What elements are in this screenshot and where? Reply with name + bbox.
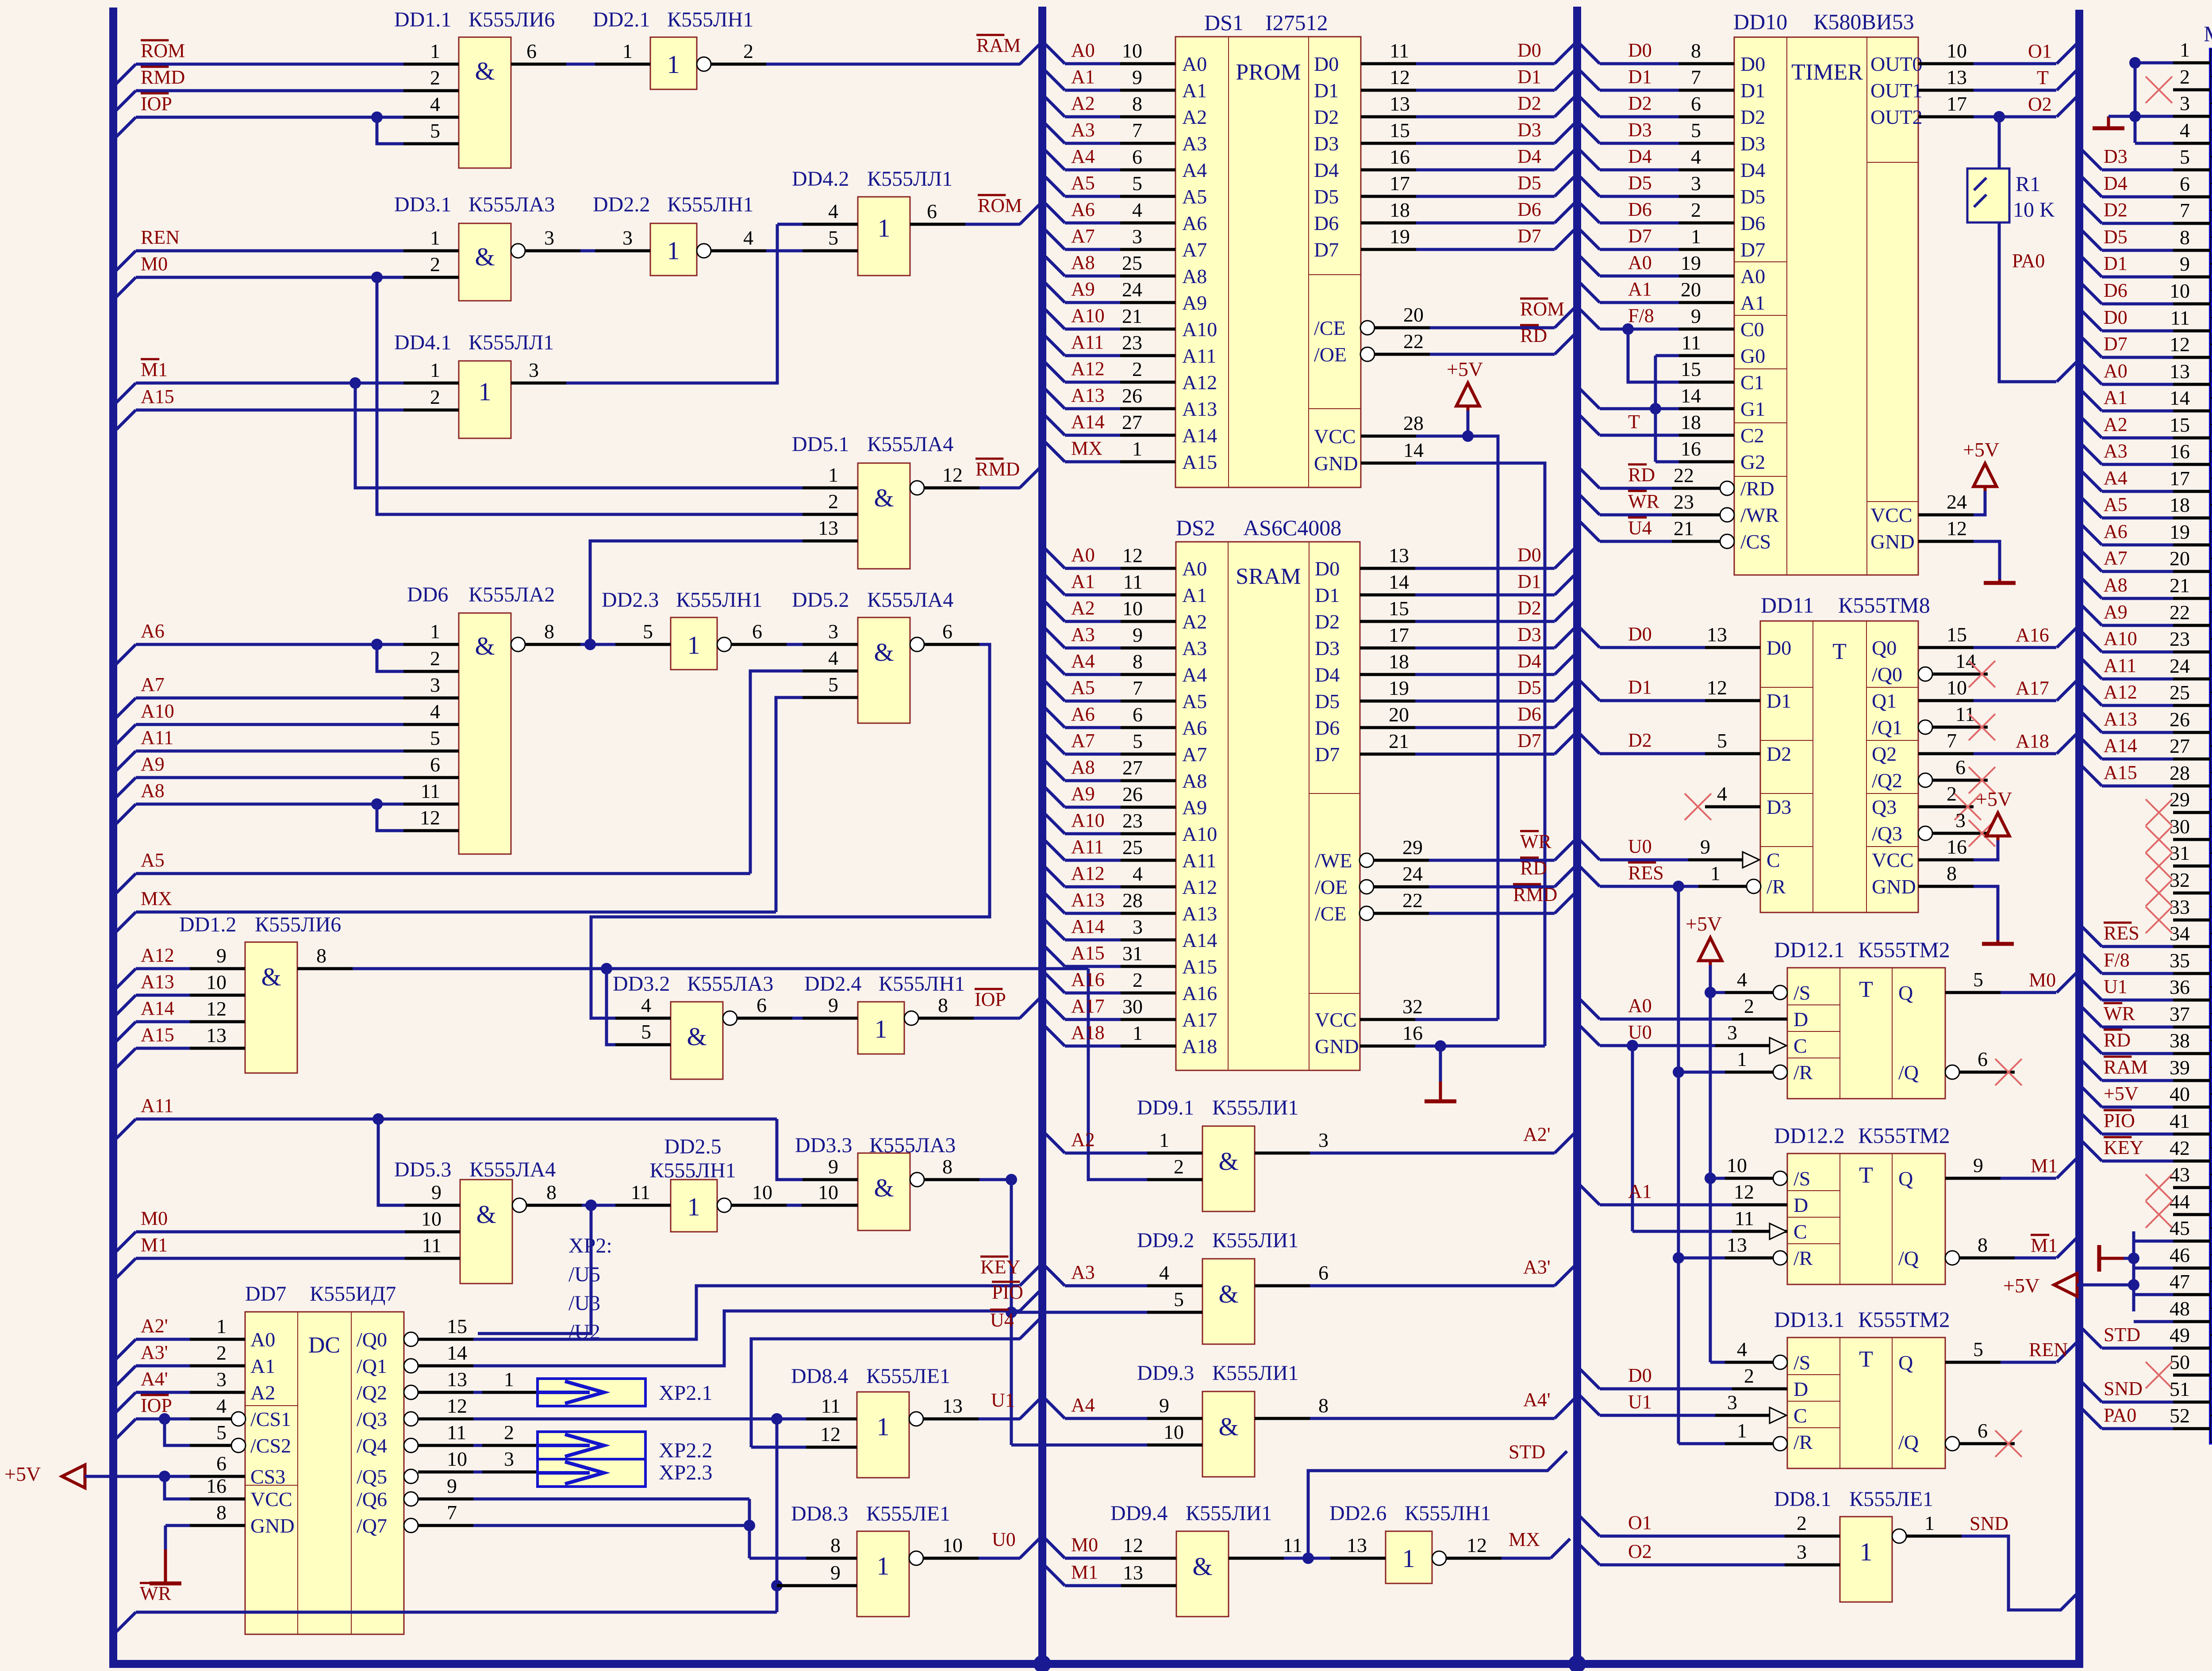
svg-text:A0: A0	[1182, 53, 1207, 75]
svg-text:1: 1	[430, 40, 440, 62]
svg-text:1: 1	[1860, 1537, 1873, 1566]
label DD12.2	[1774, 1123, 1950, 1148]
wire STD net	[1308, 1441, 1567, 1558]
wire XP1 +5V	[2077, 1284, 2134, 1287]
svg-text:A8: A8	[141, 780, 165, 801]
svg-text:/R: /R	[1793, 1247, 1813, 1269]
svg-text:К555ЛА2: К555ЛА2	[469, 583, 555, 606]
svg-text:20: 20	[1389, 703, 1409, 726]
svg-text:RMD: RMD	[975, 458, 1020, 480]
svg-text:8: 8	[1947, 862, 1957, 885]
svg-text:2: 2	[1744, 995, 1754, 1017]
ic DS1 pin name /CE	[1314, 317, 1346, 339]
nand-gate DD3.2 К555ЛА3 body	[671, 1002, 723, 1079]
wire D7 to DD10 pin D7	[1580, 225, 1734, 249]
ic DS1 pin name D0	[1314, 53, 1339, 75]
svg-text:11: 11	[1123, 571, 1143, 593]
svg-text:A3': A3'	[1523, 1256, 1551, 1278]
and-gate DD9.4 symbol	[1192, 1552, 1212, 1581]
wire DD1.2 out pin8	[297, 944, 1088, 969]
svg-text:20: 20	[1403, 303, 1424, 326]
junction RES DD12.1	[1673, 1066, 1684, 1078]
svg-text:A4': A4'	[1523, 1389, 1551, 1410]
ic DD7 pin name /Q2	[357, 1381, 387, 1404]
svg-text:T: T	[1859, 1347, 1873, 1372]
svg-text:D3: D3	[1517, 624, 1541, 645]
ic DS1 pin name A11	[1182, 345, 1217, 367]
ic DS2 pin name A7	[1182, 743, 1207, 766]
svg-text:&: &	[476, 1200, 496, 1229]
wire M0 to DD3.1 pin2	[116, 253, 459, 297]
svg-text:SND: SND	[1970, 1513, 2008, 1534]
svg-text:12: 12	[1122, 544, 1143, 567]
svg-text:D0: D0	[1628, 623, 1652, 645]
ic DD10 pin name /CS	[1740, 530, 1771, 553]
power +5V arrow DD11	[1976, 788, 2012, 840]
nor-gate DD8.4 К555ЛЕ1 body	[857, 1392, 909, 1478]
svg-text:DD2.4: DD2.4	[804, 972, 861, 996]
svg-text:4: 4	[1737, 968, 1747, 991]
wire O1 to DD8.1 pin2	[1580, 1512, 1840, 1536]
svg-text:D1: D1	[1517, 571, 1541, 592]
wire DD5.3 pin9 stub	[405, 1181, 460, 1205]
wire D0 to DD11 pin13	[1580, 623, 1760, 648]
svg-text:A1: A1	[1182, 584, 1207, 606]
svg-text:1: 1	[878, 214, 891, 242]
inversion circle DD11 /Q0	[1918, 667, 1932, 681]
ic DS2 pin name D1	[1315, 584, 1340, 606]
wire A9 to DD6 pin6	[116, 753, 459, 797]
svg-text:3: 3	[504, 1448, 514, 1470]
inversion circle DD8.1	[1892, 1529, 1906, 1543]
svg-text:C: C	[1793, 1035, 1807, 1057]
svg-text:12: 12	[447, 1395, 467, 1417]
svg-text:DD2.3: DD2.3	[602, 588, 659, 612]
wire D5 to DD10 pin D5	[1580, 172, 1734, 196]
wire A3 to DS2 pin A3	[1045, 624, 1176, 648]
svg-text:К555ЛЕ1: К555ЛЕ1	[866, 1502, 950, 1525]
wire A2 to DS2 pin A2	[1045, 597, 1176, 621]
wire M0 to DD9.4 pin12	[1045, 1534, 1176, 1558]
svg-text:1: 1	[504, 1368, 514, 1391]
wire DD5.1 pin13	[590, 517, 858, 644]
power +5V arrow DD7	[4, 1463, 85, 1488]
svg-text:&: &	[874, 483, 894, 512]
wire A6 to DD6 pin1	[116, 620, 459, 664]
ic DD10 pin name OUT1	[1870, 79, 1923, 102]
or-gate DD4.2 К555ЛЛ1 body	[858, 197, 910, 276]
svg-text:/Q2: /Q2	[1872, 769, 1902, 792]
svg-text:20: 20	[1681, 278, 1701, 301]
ic DS1 pin name A6	[1182, 212, 1207, 234]
svg-text:D5: D5	[1628, 172, 1652, 194]
svg-text:D2: D2	[1628, 92, 1652, 114]
svg-text:30: 30	[1122, 995, 1143, 1018]
svg-text:5: 5	[1717, 729, 1727, 752]
clock triangle DD13.1	[1770, 1407, 1786, 1423]
wire A11 to DS2 pin A11	[1045, 836, 1176, 860]
svg-text:&: &	[475, 242, 495, 271]
svg-text:A15: A15	[1182, 451, 1217, 473]
svg-text:14: 14	[1681, 384, 1701, 407]
junction XP1 pin46	[2128, 1253, 2139, 1264]
svg-text:/Q4: /Q4	[357, 1434, 387, 1457]
wire DS1 D4 to bus	[1361, 146, 1574, 170]
svg-text:A2: A2	[1182, 106, 1207, 128]
svg-text:9: 9	[1133, 624, 1143, 646]
inverter DD2.1 symbol	[667, 50, 680, 79]
svg-text:A14: A14	[141, 997, 174, 1019]
svg-text:D0: D0	[1517, 39, 1541, 61]
wire G1 from bus	[1580, 384, 1734, 409]
svg-text:10: 10	[206, 971, 227, 993]
svg-text:XP2.3: XP2.3	[659, 1461, 712, 1484]
svg-text:29: 29	[2170, 788, 2190, 811]
ic DS1 pin name D5	[1314, 185, 1339, 208]
svg-text:24: 24	[2170, 655, 2190, 677]
svg-text:A5: A5	[2104, 494, 2128, 515]
wire DS2 /WE WR	[1374, 831, 1574, 860]
wire DD1.1 pin5 tie	[377, 117, 459, 144]
inversion circle DS1 /CE	[1360, 321, 1375, 335]
svg-text:A15: A15	[1182, 955, 1217, 978]
ic DD7 pin name CS3	[250, 1465, 285, 1488]
wire XP1 pin 8 D5	[2082, 226, 2211, 250]
svg-text:4: 4	[430, 700, 440, 723]
svg-text:PIO: PIO	[992, 1281, 1023, 1303]
svg-text:A17: A17	[1071, 995, 1105, 1017]
wire A14 to DS2 pin A14	[1045, 916, 1176, 940]
svg-text:32: 32	[1402, 995, 1423, 1018]
svg-text:К555ТМ2: К555ТМ2	[1858, 1307, 1950, 1332]
svg-text:14: 14	[1955, 650, 1976, 672]
svg-text:/CS1: /CS1	[250, 1408, 291, 1430]
wire A0 to DS2 pin A0	[1045, 544, 1176, 568]
wire DS1 D5 to bus	[1361, 172, 1574, 196]
wire DD8.4 out pin13 U1	[923, 1389, 1039, 1419]
svg-text:DD5.1: DD5.1	[792, 433, 849, 456]
junction /Q6 /Q7	[744, 1520, 755, 1531]
svg-text:F/8: F/8	[2104, 949, 2130, 971]
svg-text:&: &	[1218, 1147, 1238, 1176]
svg-text:A8: A8	[1182, 265, 1207, 287]
wire XP1 pin 21 A8	[2082, 574, 2211, 598]
svg-text:7: 7	[1132, 119, 1142, 142]
flipflop DD12.2 separators	[1787, 1191, 1840, 1244]
ic DD10 pin name VCC	[1870, 504, 1912, 526]
svg-text:A0: A0	[1628, 995, 1652, 1016]
svg-text:2: 2	[1797, 1512, 1807, 1534]
svg-text:A10: A10	[1182, 318, 1217, 341]
svg-text:14: 14	[1403, 439, 1424, 461]
wire DD10 OUT2 O2	[1918, 92, 2076, 117]
wire A0 to DS1 pin A0	[1045, 39, 1175, 64]
ic DD10 pin name OUT0	[1870, 53, 1923, 75]
svg-text:A13: A13	[1071, 889, 1105, 911]
svg-text:T: T	[1832, 639, 1847, 664]
wire A4 to DD9.3 pin9	[1045, 1394, 1202, 1418]
ic DS2 pin name A12	[1182, 876, 1217, 898]
wire DD1.2net to DD3.2 pin5	[607, 969, 615, 1045]
label DD8.3	[791, 1502, 950, 1525]
svg-text:41: 41	[2170, 1110, 2190, 1132]
wire A1 to DS1 pin A1	[1045, 66, 1175, 90]
svg-text:A4: A4	[1071, 146, 1095, 167]
junction A6 branch	[371, 639, 383, 650]
svg-text:35: 35	[2170, 949, 2190, 972]
svg-text:A12: A12	[141, 944, 174, 966]
svg-text:12: 12	[1947, 517, 1967, 540]
svg-text:/Q3: /Q3	[1872, 822, 1902, 845]
wire A4 to DS1 pin A4	[1045, 146, 1175, 170]
wire XP1 gnd-net vertical	[2134, 63, 2137, 143]
svg-text:D7: D7	[1628, 225, 1652, 247]
svg-text:D4: D4	[2104, 172, 2128, 194]
label DD8.4	[791, 1364, 950, 1388]
ic DS1 pin name A14	[1182, 424, 1217, 447]
svg-text:D4: D4	[1314, 159, 1339, 181]
svg-text:/R: /R	[1767, 875, 1786, 898]
svg-text:DD5.2: DD5.2	[792, 588, 849, 612]
junction pin11 /Q3	[771, 1413, 783, 1425]
svg-text:A0: A0	[1071, 39, 1095, 61]
svg-text:/Q1: /Q1	[1872, 716, 1902, 739]
svg-text:/OE: /OE	[1314, 343, 1347, 366]
svg-text:IOP: IOP	[975, 989, 1006, 1010]
wire G0 tie	[1655, 331, 1734, 356]
ic DD7 pin name A1	[250, 1355, 275, 1377]
bus main vertical 2	[1038, 7, 1046, 1664]
svg-text:8: 8	[1133, 650, 1143, 673]
svg-text:A13: A13	[1182, 902, 1217, 925]
svg-text:U1: U1	[991, 1389, 1015, 1411]
svg-text:8: 8	[1318, 1394, 1329, 1417]
ground symbol DD10	[1984, 579, 2016, 583]
ic DS1 pin name D3	[1314, 132, 1339, 155]
inversion circle DD12.1 /Q	[1945, 1065, 1959, 1079]
svg-text:RD: RD	[1520, 857, 1547, 879]
junction +5V VCC	[159, 1471, 170, 1482]
svg-text:D6: D6	[1740, 212, 1765, 234]
wire XP1 pin 43 nc	[2146, 1163, 2211, 1201]
wire A14 to DD1.2 pin12	[116, 997, 245, 1041]
wire A0 to DD12.1 D pin2	[1580, 995, 1787, 1019]
bus bottom horizontal	[109, 1660, 2083, 1668]
ic DS1 pin name A9	[1182, 291, 1207, 314]
svg-text:3: 3	[1691, 172, 1701, 195]
junction DD3.3net DD9.2	[1006, 1307, 1017, 1318]
label DD2.5	[649, 1135, 736, 1182]
svg-text:STD: STD	[2104, 1324, 2140, 1345]
svg-text:DD2.1: DD2.1	[593, 8, 650, 31]
svg-text:25: 25	[1122, 252, 1142, 274]
svg-text:49: 49	[2170, 1324, 2190, 1346]
svg-text:&: &	[874, 638, 894, 667]
wire R1 bottom PA0	[1999, 222, 2076, 382]
svg-text:30: 30	[2170, 815, 2190, 838]
power +5V arrow XP1	[2003, 1273, 2077, 1297]
svg-text:A12: A12	[1182, 371, 1217, 394]
inversion circle DD5.2	[910, 637, 924, 652]
svg-text:36: 36	[2170, 976, 2190, 998]
svg-text:К555ЛИ6: К555ЛИ6	[255, 913, 341, 936]
svg-text:6: 6	[757, 994, 767, 1016]
label WR bottom	[140, 1583, 172, 1604]
ic DD11 right separators	[1866, 687, 1918, 847]
inversion circle DD12.2 /R	[1773, 1251, 1787, 1265]
svg-text:M1: M1	[141, 359, 168, 380]
junction RES DD12.2	[1673, 1252, 1684, 1264]
svg-text:GND: GND	[1314, 452, 1358, 475]
wire DS2 GND drop	[1439, 1046, 1442, 1081]
inverter DD2.4 symbol	[875, 1015, 887, 1043]
wire G2 tie	[1655, 437, 1734, 462]
svg-text:T: T	[1859, 1163, 1873, 1188]
svg-text:A11: A11	[1182, 849, 1217, 872]
svg-text:DD9.4: DD9.4	[1110, 1502, 1167, 1525]
svg-text:A14: A14	[1071, 916, 1105, 937]
svg-text:SND: SND	[2104, 1378, 2143, 1399]
wire DD5.2 out pin6	[591, 620, 990, 1018]
svg-text:/S: /S	[1793, 1351, 1810, 1374]
inversion circle DD7 /Q 11	[404, 1438, 418, 1453]
inversion circle DD13.1 /Q	[1945, 1437, 1959, 1451]
svg-text:3: 3	[1133, 916, 1143, 938]
wire DD7 GND pin8	[165, 1501, 245, 1549]
inverter DD2.5 К555ЛН1 body	[671, 1180, 717, 1232]
svg-text:D4: D4	[1315, 663, 1340, 686]
svg-text:A14: A14	[1182, 424, 1217, 447]
svg-text:A10: A10	[2104, 628, 2137, 649]
wire A12 to DS2 pin A12	[1045, 862, 1176, 887]
inverter DD2.6 К555ЛН1 body	[1386, 1531, 1432, 1583]
inversion circle DD7 /Q 12	[404, 1412, 418, 1426]
clock triangle DD12.1	[1770, 1038, 1786, 1054]
svg-text:12: 12	[1390, 66, 1410, 88]
wire DD7 /Q6	[418, 1475, 749, 1499]
svg-text:+5V: +5V	[4, 1463, 41, 1485]
wire MX	[116, 888, 776, 931]
ic DS2 symbol SRAM	[1236, 564, 1301, 589]
inversion circle DD10 /RD	[1720, 481, 1734, 495]
wire A5 to DS2 pin A5	[1045, 677, 1176, 701]
svg-text:D1: D1	[1315, 584, 1340, 606]
wire REN to DD3.1 pin1	[116, 226, 459, 270]
wire XP1 pin 6 D4	[2082, 172, 2211, 197]
svg-text:4: 4	[1691, 146, 1701, 168]
wire M1 to DD9.4 pin13	[1045, 1561, 1176, 1586]
wire DD7 /Q1 PIO	[418, 1281, 1039, 1366]
wire DD12.1 Q M0	[1945, 968, 2076, 993]
nand-gate DD3.2 symbol	[687, 1022, 707, 1051]
svg-text:19: 19	[1681, 252, 1701, 274]
wire DD8.3 in pin8	[806, 1534, 857, 1558]
svg-text:11: 11	[631, 1181, 650, 1203]
ic DD7 pin name A0	[250, 1328, 275, 1351]
svg-text:A17: A17	[1182, 1008, 1217, 1031]
ic DD11 left separators	[1760, 687, 1813, 847]
svg-text:OUT1: OUT1	[1870, 79, 1923, 102]
ic DS1 pin name A3	[1182, 132, 1207, 155]
svg-text:A10: A10	[1182, 823, 1217, 845]
svg-text:D7: D7	[1315, 743, 1340, 766]
label DD8.1	[1774, 1487, 1933, 1511]
wire A1 to DD12.2 D pin12	[1580, 1180, 1787, 1205]
svg-text:MX: MX	[1509, 1529, 1540, 1550]
bus main vertical 3	[1573, 7, 1581, 1664]
flipflop DD12.2 internal lines	[1840, 1154, 1892, 1284]
svg-text:22: 22	[1674, 464, 1694, 487]
svg-text:A12: A12	[2104, 681, 2137, 703]
wire DD12.2 Q M1	[1945, 1154, 2076, 1178]
inversion circle DD8.3	[909, 1551, 923, 1565]
svg-text:DD7: DD7	[245, 1282, 286, 1306]
svg-text:D4: D4	[1628, 146, 1652, 167]
inversion circle DD7 /Q 7	[404, 1518, 418, 1533]
svg-text:A11: A11	[1071, 331, 1104, 353]
ic DS2 pin name A8	[1182, 770, 1207, 792]
svg-text:TIMER: TIMER	[1791, 60, 1863, 85]
svg-text:1: 1	[622, 40, 633, 62]
svg-text:4: 4	[743, 226, 753, 249]
wire DD3.3 out pin8	[924, 1155, 1011, 1180]
wire A12 to DS1 pin A12	[1045, 358, 1175, 382]
wire U4 net	[751, 1309, 1039, 1447]
wire DD3.3net to DD9.2 pin5	[1011, 1311, 1147, 1314]
junction XP1 pin3	[2129, 111, 2141, 122]
svg-text:&: &	[1192, 1552, 1212, 1581]
svg-text:XP2.1: XP2.1	[659, 1381, 712, 1405]
svg-text:D2: D2	[1314, 106, 1339, 128]
junction M0 branch	[371, 272, 383, 283]
svg-text:A12: A12	[1071, 358, 1105, 379]
ic DS1 pin name A8	[1182, 265, 1207, 287]
svg-text:К555ЛЕ1: К555ЛЕ1	[866, 1364, 950, 1388]
svg-text:1: 1	[1737, 1419, 1747, 1442]
svg-text:1: 1	[1133, 1022, 1143, 1044]
ic DD10 pin name OUT2	[1870, 106, 1923, 128]
nor-gate DD8.1 К555ЛЕ1 body	[1840, 1517, 1892, 1602]
svg-text:5: 5	[1973, 1338, 1983, 1361]
svg-text:O2: O2	[1628, 1541, 1652, 1562]
svg-text:D3: D3	[1628, 119, 1652, 141]
junction +5V DD12.1 /S	[1705, 987, 1716, 998]
svg-text:A6: A6	[1182, 717, 1207, 739]
svg-text:9: 9	[1159, 1394, 1169, 1417]
svg-text:GND: GND	[1870, 530, 1915, 553]
label DD9.1	[1137, 1096, 1298, 1119]
wire DS2 D0 to bus	[1360, 544, 1574, 568]
wire XP1 pin 24 A11	[2082, 655, 2211, 679]
svg-text:A8: A8	[1182, 770, 1207, 792]
svg-text:5: 5	[828, 673, 838, 696]
svg-text:1: 1	[479, 377, 492, 406]
svg-text:&: &	[475, 632, 495, 660]
label DD9.2	[1137, 1229, 1298, 1252]
svg-text:11: 11	[421, 780, 440, 802]
wire XP1 pin 13 A0	[2082, 360, 2211, 384]
svg-text:11: 11	[1390, 39, 1409, 62]
svg-text:1: 1	[687, 1192, 700, 1221]
wire DD2.3 out pin6	[731, 620, 803, 644]
svg-text:D1: D1	[1767, 690, 1791, 712]
wire A9 to DS2 pin A9	[1045, 783, 1176, 807]
ic DS2 pin name D0	[1315, 557, 1340, 580]
svg-text:/Q5: /Q5	[357, 1465, 387, 1488]
svg-text:A1: A1	[1628, 1180, 1652, 1202]
ic DD10 pin names CG	[1740, 318, 1765, 473]
wire XP1 pin 17 A4	[2082, 467, 2211, 491]
